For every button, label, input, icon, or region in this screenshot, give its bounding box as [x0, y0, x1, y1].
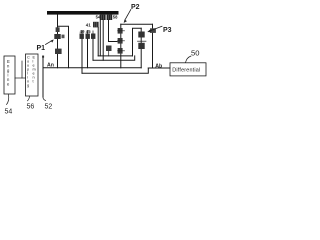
descender wires: [81, 39, 83, 73]
svg-text:52: 52: [45, 104, 53, 111]
under-bar hatched machines: [100, 15, 106, 20]
leader 56: [28, 97, 30, 101]
svg-text:Ab: Ab: [155, 63, 162, 69]
right box right edge: [152, 24, 154, 68]
wire P1 column shaft: [57, 15, 59, 68]
wire 52 drop line: [42, 57, 44, 98]
svg-text:P3: P3: [163, 27, 172, 34]
stubs above squares: [82, 31, 93, 34]
leader P3: [150, 26, 163, 31]
middle U: [93, 56, 135, 60]
clutches on left edge: [118, 28, 123, 54]
differential box: [170, 63, 206, 76]
small tick right of P1 clutch: [62, 35, 65, 39]
middle gear cluster: tiny squares: [80, 34, 84, 39]
svg-text:An: An: [47, 62, 54, 68]
label P1 arrow: [46, 40, 53, 44]
svg-text:P2: P2: [131, 4, 140, 11]
41 element hatched box under bar area: [93, 22, 99, 28]
engine box: [4, 56, 15, 94]
An shaft: [43, 67, 141, 69]
small clutch mid: [106, 46, 112, 52]
svg-text:56: 56: [27, 104, 35, 111]
connector to right box left side: [98, 55, 132, 57]
small tick on right edge: [150, 28, 156, 33]
leader 50: [186, 56, 192, 63]
P3 column: [140, 28, 142, 68]
wire from 41 box down to connector: [97, 27, 99, 56]
leader 54: [7, 95, 9, 105]
engine-coupling connector: [15, 77, 26, 79]
cap on drop line: [42, 56, 44, 58]
top bar (housing/ground): [47, 11, 119, 15]
element lower on P1 column: [55, 49, 62, 54]
right box top edge: [121, 23, 153, 25]
coupling box: [26, 54, 39, 96]
svg-text:54: 54: [96, 15, 101, 20]
svg-text:41: 41: [86, 22, 91, 27]
arch shaft inside box: [133, 28, 142, 56]
svg-text:58: 58: [113, 15, 118, 20]
svg-text:54: 54: [5, 109, 13, 116]
svg-text:50: 50: [191, 49, 199, 58]
wire inner U: [100, 20, 103, 60]
svg-text:Differential: Differential: [172, 67, 200, 73]
wire hook from upper element to An shaft: [58, 26, 69, 68]
right box left edge: [120, 24, 122, 68]
element P1 hatched clutch: [54, 34, 60, 39]
Ab shaft to differential: [148, 67, 170, 69]
element on P1 column upper: [56, 27, 60, 32]
outer U: [82, 68, 148, 73]
svg-text:g: g: [27, 84, 29, 88]
leader 52: [43, 97, 46, 100]
svg-text:P1: P1: [37, 45, 46, 52]
leader P2: [125, 10, 131, 20]
wire from machine 2 with L: [109, 20, 118, 42]
svg-text:49 45: 49 45: [80, 29, 92, 34]
